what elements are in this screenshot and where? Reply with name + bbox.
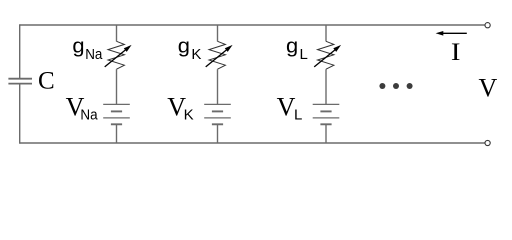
svg-text:I: I xyxy=(451,39,461,66)
wire branch K bottom xyxy=(217,124,219,143)
wire branch Na bottom xyxy=(116,124,118,143)
resistor g_Na variable arrow xyxy=(105,45,132,67)
wire branch Na top xyxy=(116,25,118,41)
wire left rail lower xyxy=(19,84,21,144)
wire branch K middle xyxy=(217,69,219,104)
terminal bottom-right xyxy=(485,140,490,145)
battery V_L xyxy=(313,104,340,124)
svg-text:Na: Na xyxy=(80,106,98,123)
svg-text:V: V xyxy=(277,92,296,121)
wire branch L bottom xyxy=(325,124,327,143)
resistor g_L zigzag xyxy=(318,41,334,69)
wire left rail upper xyxy=(19,24,21,78)
svg-text:g: g xyxy=(178,36,190,58)
ellipsis dots xyxy=(379,83,412,89)
wire top rail xyxy=(20,24,485,26)
resistor g_L variable arrow xyxy=(314,45,341,67)
svg-text:Na: Na xyxy=(85,46,103,63)
svg-text:K: K xyxy=(191,46,201,63)
resistor g_K variable arrow xyxy=(206,45,233,67)
terminal top-right xyxy=(485,23,490,28)
svg-text:L: L xyxy=(294,106,302,123)
capacitor C xyxy=(8,79,32,84)
wire branch K top xyxy=(217,25,219,41)
battery V_K xyxy=(204,104,231,124)
svg-text:C: C xyxy=(38,68,55,95)
svg-text:L: L xyxy=(300,46,308,63)
wire branch L top xyxy=(325,25,327,41)
wire bottom rail xyxy=(20,142,485,144)
current arrow I xyxy=(436,31,467,36)
svg-text:K: K xyxy=(184,106,194,123)
resistor g_K zigzag xyxy=(209,41,225,69)
svg-text:g: g xyxy=(286,36,298,58)
svg-text:g: g xyxy=(72,36,84,58)
resistor g_Na zigzag xyxy=(108,41,124,69)
wire branch L middle xyxy=(325,69,327,104)
battery V_Na xyxy=(103,104,130,124)
wire branch Na middle xyxy=(116,69,118,104)
svg-text:V: V xyxy=(479,73,498,102)
